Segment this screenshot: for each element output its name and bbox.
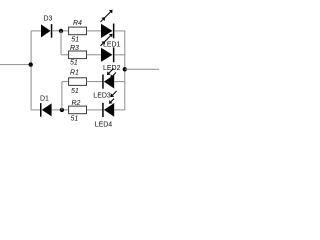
svg-text:LED2: LED2	[103, 65, 121, 72]
wire left rail to D1	[31, 109, 40, 111]
wire LED1 to rail	[114, 30, 124, 32]
wire output	[125, 68, 159, 70]
wire branch up to R1	[61, 82, 63, 110]
svg-text:LED1: LED1	[103, 42, 121, 49]
svg-text:D1: D1	[40, 96, 49, 103]
wire input	[0, 64, 31, 66]
resistor R2	[69, 106, 87, 114]
wire LED3 to rail	[114, 81, 125, 83]
LED LED2	[101, 48, 113, 62]
wire D3 anode	[31, 30, 41, 32]
wire left rail	[30, 31, 32, 110]
wire D3 cathode to R4	[52, 30, 68, 32]
wire R1 to LED3	[87, 81, 103, 83]
diode D1	[40, 103, 42, 117]
resistor R4	[69, 27, 87, 35]
LED LED4	[104, 103, 114, 117]
LED LED3	[104, 75, 114, 89]
svg-text:R1: R1	[70, 70, 79, 77]
wire LED4 to rail	[114, 109, 125, 111]
diode D3	[41, 24, 51, 37]
svg-text:51: 51	[71, 36, 79, 43]
svg-text:LED3: LED3	[93, 92, 111, 99]
svg-text:LED4: LED4	[95, 121, 113, 128]
svg-text:51: 51	[71, 88, 79, 95]
wire D1 to R2	[52, 109, 69, 111]
wire LED2 to rail	[114, 54, 124, 56]
svg-text:51: 51	[71, 115, 79, 122]
resistor R1	[69, 78, 87, 86]
wire branch down to R3	[60, 31, 62, 55]
wire right rail	[124, 31, 126, 110]
LED LED1	[101, 24, 113, 38]
wire R3 to LED2	[87, 54, 102, 56]
resistor R3	[69, 51, 87, 59]
node after D3	[59, 29, 63, 33]
node input junction	[29, 62, 33, 66]
svg-text:R3: R3	[70, 45, 79, 52]
node output junction	[123, 67, 127, 71]
svg-text:D3: D3	[44, 16, 53, 23]
svg-text:R2: R2	[72, 100, 81, 107]
svg-text:R4: R4	[73, 20, 82, 27]
node after D1	[60, 108, 64, 112]
svg-text:51: 51	[70, 59, 78, 66]
wire R4 to LED1	[87, 30, 102, 32]
wire R2 to LED4	[87, 109, 103, 111]
